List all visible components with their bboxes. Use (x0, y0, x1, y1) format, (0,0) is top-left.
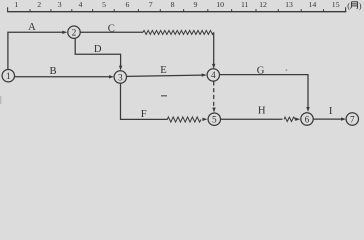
svg-text:C: C (108, 23, 115, 34)
node 6 (301, 113, 313, 125)
node 4 (207, 69, 219, 81)
svg-text:H: H (258, 105, 266, 116)
wire activity B (1 to 3) (15, 76, 110, 78)
stray dash mark (161, 95, 167, 97)
svg-text:(: ( (347, 0, 350, 10)
svg-text:7: 7 (350, 115, 355, 125)
wire activity C (2 to 4) with free-float wave (80, 31, 143, 33)
wire activity G (4 to 6) (220, 75, 308, 108)
svg-text:): ) (359, 0, 362, 10)
svg-text:4: 4 (211, 71, 216, 81)
svg-text:B: B (49, 66, 56, 77)
svg-text:E: E (160, 65, 166, 76)
svg-text:3: 3 (118, 73, 123, 83)
wire activity H (5 to 6) with free-float wave (221, 118, 283, 120)
wire activity F (3 to 5) with free-float wave (121, 83, 168, 119)
node 7 (346, 113, 358, 125)
node 2 (68, 26, 80, 38)
svg-text:6: 6 (305, 115, 310, 125)
svg-text:F: F (141, 109, 147, 120)
node 3 (114, 71, 126, 83)
wire activity I (6 to 7) (314, 118, 342, 120)
svg-text:5: 5 (212, 116, 217, 126)
ruler ticks (8, 7, 346, 11)
node 1 (2, 70, 14, 82)
svg-text:G: G (257, 65, 265, 76)
svg-text:2: 2 (72, 29, 77, 39)
wire activity E (3 to 4) (127, 75, 202, 76)
node 5 (208, 113, 220, 125)
svg-text:I: I (329, 106, 333, 117)
ruler baseline (7, 11, 346, 13)
svg-text:A: A (28, 22, 36, 33)
svg-text:1: 1 (6, 72, 11, 82)
left edge scan smudge (0, 96, 1, 104)
stray dot (286, 69, 288, 71)
wire activity A (1 to 2) (8, 32, 63, 69)
svg-text:D: D (94, 44, 102, 55)
dashed link 4 to 5 (213, 81, 215, 108)
wire activity D (2 to 3) (75, 39, 120, 67)
